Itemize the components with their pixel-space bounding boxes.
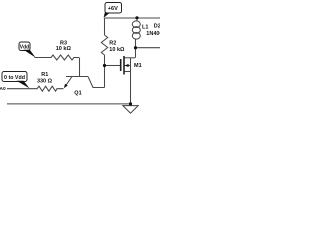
svg-text:10 kΩ: 10 kΩ (109, 47, 125, 53)
svg-text:D2: D2 (154, 23, 160, 29)
svg-text:Vdd: Vdd (20, 44, 29, 50)
svg-text:M1: M1 (134, 63, 142, 69)
svg-text:R1: R1 (41, 72, 48, 78)
svg-text:0 to Vdd: 0 to Vdd (4, 75, 25, 81)
svg-text:Q1: Q1 (74, 91, 81, 97)
svg-text:L1: L1 (142, 24, 148, 30)
svg-text:+6V: +6V (108, 6, 118, 12)
svg-text:10 kΩ: 10 kΩ (56, 46, 72, 52)
svg-text:R2: R2 (109, 41, 116, 47)
svg-text:A0: A0 (0, 86, 6, 92)
svg-text:330 Ω: 330 Ω (37, 78, 53, 84)
svg-text:1N4004: 1N4004 (146, 31, 160, 37)
